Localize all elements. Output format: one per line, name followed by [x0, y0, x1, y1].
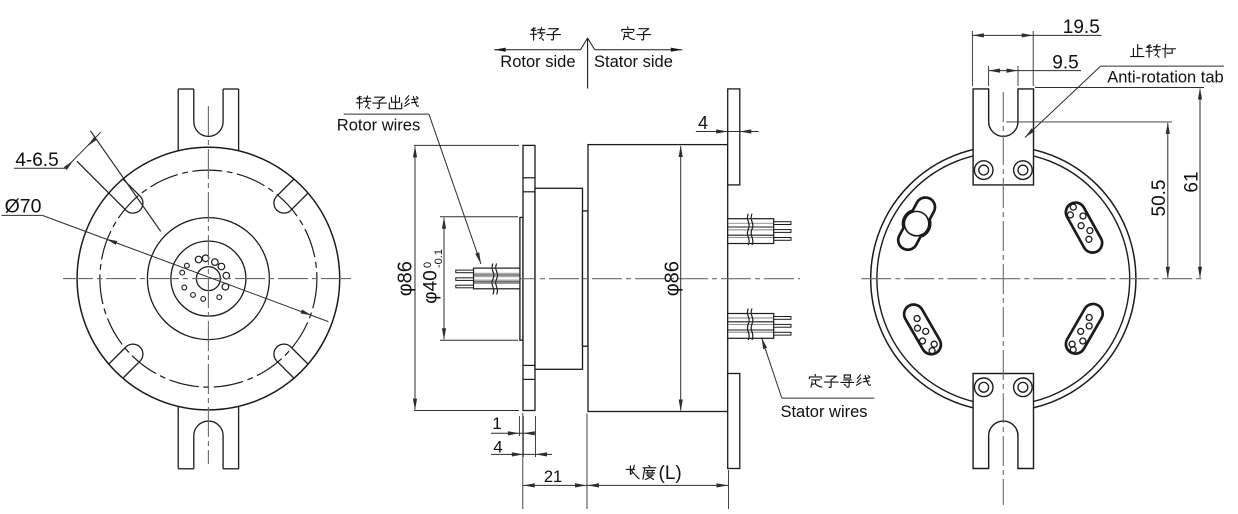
svg-text:-0.1: -0.1 — [433, 249, 445, 268]
svg-text:9.5: 9.5 — [1052, 53, 1078, 74]
svg-text:19.5: 19.5 — [1063, 17, 1100, 38]
svg-text:(L): (L) — [659, 463, 682, 484]
svg-text:50.5: 50.5 — [1149, 180, 1170, 217]
svg-text:4-6.5: 4-6.5 — [15, 150, 58, 171]
svg-text:Rotor side: Rotor side — [500, 53, 575, 71]
svg-text:61: 61 — [1182, 171, 1203, 192]
svg-text:4: 4 — [493, 438, 502, 457]
svg-text:φ86: φ86 — [662, 261, 684, 296]
svg-text:Stator wires: Stator wires — [780, 403, 867, 421]
svg-text:Stator side: Stator side — [594, 53, 673, 71]
svg-text:Anti-rotation tab: Anti-rotation tab — [1107, 69, 1223, 87]
svg-text:Rotor wires: Rotor wires — [337, 117, 420, 135]
svg-text:21: 21 — [544, 468, 562, 486]
svg-text:Ø70: Ø70 — [5, 196, 42, 218]
svg-text:1: 1 — [492, 414, 501, 433]
svg-text:φ40: φ40 — [421, 270, 442, 303]
svg-text:4: 4 — [698, 113, 708, 133]
svg-text:φ86: φ86 — [395, 261, 417, 296]
